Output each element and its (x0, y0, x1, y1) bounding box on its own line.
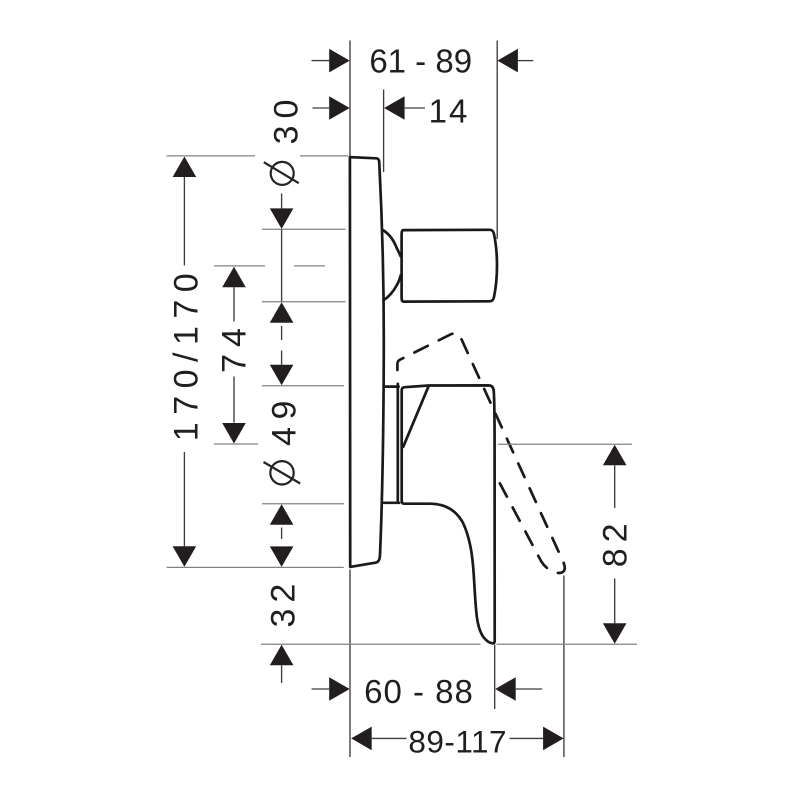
handle centerline (214, 265, 265, 267)
dim 74 (222, 267, 246, 288)
svg-text:30: 30 (268, 93, 306, 145)
dim 89-117 (351, 727, 372, 751)
extension line x=497.2 (61-89 right) (496, 41, 498, 240)
ref line lever tip bottom (261, 643, 481, 645)
extension line x=350 bottom (349, 570, 351, 758)
extension line x=563.9 (89-117 right) (563, 576, 565, 758)
dim 60-88 (312, 688, 330, 690)
extension line x=350 top (349, 41, 351, 157)
svg-text:60 - 88: 60 - 88 (364, 673, 474, 710)
dim 170/170 (173, 157, 197, 178)
ref line pivot right (498, 443, 632, 445)
ref line pivot left (214, 443, 258, 445)
ref line lever top (262, 385, 344, 387)
lever body and blade (402, 385, 495, 643)
svg-text:61 - 89: 61 - 89 (369, 43, 472, 80)
dim 32 (270, 546, 294, 567)
lever cap joint line (403, 386, 429, 447)
svg-text:89-117: 89-117 (408, 723, 507, 759)
dim 14 (313, 107, 330, 109)
ref line handle bottom (262, 301, 346, 303)
svg-text:49: 49 (266, 393, 304, 446)
dim 82 (603, 445, 627, 466)
ref line plate top (167, 155, 256, 157)
escutcheon plate (side view) (350, 157, 384, 567)
dim dia 30 (271, 162, 294, 185)
handle neck (383, 230, 400, 300)
lever sleeve (384, 384, 399, 503)
svg-text:14: 14 (429, 92, 470, 129)
svg-text:82: 82 (597, 517, 635, 567)
extension line x=383.6 (14) (383, 90, 385, 173)
dim 61-89 (312, 60, 330, 62)
handle knob (402, 230, 497, 302)
ref line sleeve bottom (262, 503, 344, 505)
lever alternate position (dashed) (397, 333, 564, 573)
svg-text:74: 74 (215, 321, 253, 373)
svg-text:32: 32 (265, 578, 303, 628)
ref line handle top (262, 228, 346, 230)
ref line plate bottom (167, 566, 344, 568)
extension line x=494.7 (60-88 right) (494, 645, 496, 709)
svg-text:170/170: 170/170 (167, 266, 205, 441)
dim dia 49 (270, 365, 294, 386)
